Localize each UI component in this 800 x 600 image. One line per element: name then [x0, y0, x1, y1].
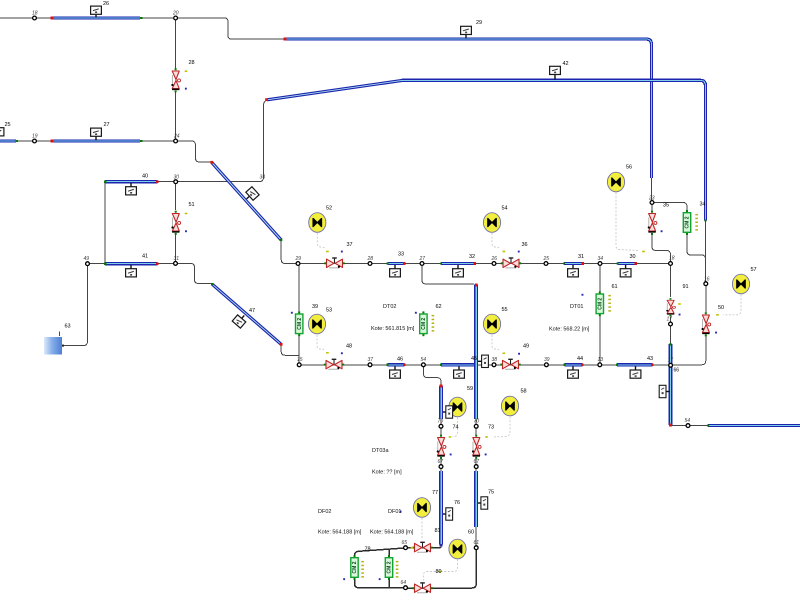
svg-text:78: 78	[365, 547, 371, 553]
svg-text:23: 23	[648, 196, 655, 202]
cm box DF01	[385, 555, 392, 580]
node 63b	[474, 465, 478, 469]
node 13	[598, 363, 602, 367]
wire valve 28 to node 24	[175, 91, 177, 140]
node 15	[297, 363, 301, 367]
svg-text:15: 15	[297, 357, 303, 363]
valve 91	[666, 298, 675, 316]
pipe 25	[0, 140, 18, 142]
svg-text:61: 61	[474, 540, 480, 546]
wire pipe 29 bottom to node 23	[651, 178, 653, 200]
svg-text:34: 34	[260, 175, 266, 181]
svg-text:28: 28	[367, 256, 374, 262]
ydots 62	[432, 315, 435, 332]
svg-text:42: 42	[563, 61, 569, 67]
cm box DF02	[351, 555, 358, 580]
svg-text:81: 81	[435, 528, 441, 534]
ydots DF01	[396, 561, 399, 578]
meter 41	[126, 265, 137, 277]
svg-text:Kote: 564.188 [m]: Kote: 564.188 [m]	[370, 530, 414, 536]
wire node 18b to valve 91	[670, 265, 672, 297]
meter 43	[630, 366, 641, 378]
svg-text:67: 67	[438, 459, 444, 465]
svg-text:60: 60	[468, 530, 474, 536]
wire right chain valve 73	[475, 419, 477, 436]
svg-text:16: 16	[704, 277, 710, 283]
svg-text:28: 28	[189, 60, 195, 66]
svg-text:26: 26	[491, 256, 498, 262]
svg-text:35: 35	[663, 203, 669, 209]
wire node 23 to valve	[651, 205, 653, 212]
svg-text:30: 30	[630, 254, 636, 260]
wire pipe 42 bottom to node 16	[705, 221, 707, 283]
ydots 61	[608, 295, 611, 312]
meter 46	[390, 366, 401, 378]
meter 76	[443, 508, 453, 520]
wire top row A left	[0, 17, 173, 19]
meter 31	[568, 265, 579, 277]
pipe 32	[440, 262, 476, 265]
dashed pump 53 to valve 48	[317, 335, 324, 350]
svg-text:DF01: DF01	[388, 509, 401, 515]
pump 55	[483, 314, 500, 334]
meter 68	[659, 385, 669, 397]
wire node 30 segment	[105, 181, 176, 183]
wire valve row DF01	[406, 547, 441, 549]
meter 35 rotated	[243, 187, 259, 203]
pipe 42	[402, 80, 707, 221]
valve 23	[648, 211, 657, 235]
svg-text:34: 34	[598, 256, 604, 262]
node 67	[439, 465, 443, 469]
svg-text:53: 53	[326, 308, 332, 314]
svg-text:55: 55	[502, 307, 508, 313]
wire row E main	[299, 364, 670, 366]
cm box 62	[420, 311, 427, 336]
svg-text:47: 47	[249, 308, 255, 314]
node 70	[439, 424, 443, 428]
svg-text:36: 36	[522, 242, 528, 248]
svg-text:Kote: 564.188 [m]: Kote: 564.188 [m]	[318, 530, 362, 536]
dashed pump 80b to valve 80	[423, 560, 457, 581]
svg-text:29: 29	[295, 256, 302, 262]
svg-text:17: 17	[667, 317, 673, 323]
valve 37	[324, 258, 344, 268]
svg-text:62: 62	[436, 304, 442, 310]
wire pipe 47 bottom to node 15	[281, 345, 299, 356]
svg-text:80: 80	[436, 569, 442, 575]
node 38	[492, 363, 496, 367]
svg-text:32: 32	[469, 254, 475, 260]
pump 57	[732, 274, 749, 294]
svg-text:38: 38	[492, 357, 498, 363]
pipe 43	[616, 363, 654, 366]
pump 58	[501, 396, 518, 416]
svg-text:44: 44	[577, 356, 583, 362]
node 27	[420, 262, 424, 266]
wire valve 91 to node 17	[670, 317, 672, 322]
node 17	[669, 322, 673, 326]
meter 30	[620, 265, 631, 277]
node 34b	[598, 262, 602, 266]
svg-text:37: 37	[368, 357, 374, 363]
wire loop top	[355, 548, 405, 588]
dashed pump 54 to valve 36	[492, 233, 499, 248]
pump 52	[309, 213, 326, 233]
svg-text:37: 37	[347, 242, 353, 248]
svg-text:39: 39	[312, 304, 318, 310]
pump 53	[308, 314, 325, 334]
svg-text:51: 51	[189, 202, 195, 208]
meter 25	[0, 128, 4, 140]
pipe 77	[440, 471, 443, 547]
svg-text:41: 41	[142, 254, 148, 260]
svg-text:73: 73	[488, 425, 494, 431]
cm box 34	[683, 210, 690, 235]
wire node 16 to valve 50	[705, 286, 707, 313]
svg-text:64: 64	[401, 580, 407, 586]
pipe 44	[563, 363, 583, 366]
svg-text:DT02: DT02	[383, 304, 396, 310]
wire valve 51 to node 31	[175, 234, 177, 262]
node 29	[296, 262, 300, 266]
svg-text:39: 39	[544, 357, 550, 363]
svg-text:26: 26	[103, 1, 109, 7]
wire node 23 to CM2 (pipe 35)	[652, 203, 687, 213]
svg-text:45: 45	[471, 356, 477, 362]
wire node 24 jog to pipe 35	[176, 141, 211, 162]
meter 71	[478, 355, 488, 367]
valve 74	[437, 435, 446, 459]
svg-text:54: 54	[685, 418, 691, 424]
blue dash marks	[185, 88, 717, 580]
dashed pump 58 to valve 73	[494, 417, 510, 437]
wire pipe 41 to node 31	[157, 263, 176, 265]
meter 45	[454, 366, 465, 378]
wire pipe 42 left tip down to node-30 row	[157, 101, 266, 182]
wire node 49 to pipe 41	[88, 263, 106, 265]
svg-text:77: 77	[432, 490, 438, 496]
wire pipe 77 bottom stub	[440, 544, 442, 548]
meter 44	[568, 366, 579, 378]
valve 28	[171, 68, 180, 92]
dashed pump 55 to valve 49	[492, 335, 499, 350]
svg-text:54: 54	[502, 206, 508, 212]
valve 49	[500, 359, 520, 369]
pipe 26	[51, 17, 143, 20]
svg-text:24: 24	[173, 134, 180, 140]
pipe 46	[386, 363, 405, 366]
svg-text:19: 19	[32, 134, 38, 140]
svg-text:52: 52	[326, 206, 332, 212]
dashed pump 77b to valve DF01	[421, 518, 423, 540]
wire vertical connecting pipes 40/41	[104, 182, 106, 264]
wire loop right vertical	[388, 549, 390, 588]
node 18b	[669, 262, 673, 266]
pipe 40	[104, 180, 159, 183]
svg-text:48: 48	[346, 344, 352, 350]
pump 59	[449, 397, 466, 417]
ydots 34	[695, 214, 698, 231]
svg-text:91: 91	[683, 284, 689, 290]
wire row C main	[284, 263, 671, 265]
svg-text:43: 43	[647, 356, 653, 362]
valve 73	[472, 435, 481, 459]
pipe short at node 54	[440, 385, 443, 419]
dashed pump 56 to valve 23	[616, 193, 638, 251]
node 61b	[474, 546, 478, 550]
pipe 59 vertical	[475, 284, 478, 419]
meter 32	[453, 265, 464, 277]
dashed pump 59 to valve 74	[453, 418, 458, 437]
wire valve row 80 to node 61	[406, 550, 476, 589]
svg-text:17: 17	[668, 358, 674, 364]
meter 47 rotated	[232, 312, 248, 328]
svg-text:63: 63	[65, 324, 71, 330]
node 23	[650, 201, 654, 205]
node 39	[545, 363, 549, 367]
valve 51	[171, 211, 180, 235]
ydots DF02	[361, 561, 364, 578]
pump 80b	[449, 539, 466, 559]
svg-text:76: 76	[454, 500, 460, 506]
meter 26	[91, 6, 102, 17]
node 54a	[422, 363, 426, 367]
pipe 27	[51, 140, 143, 143]
svg-text:18: 18	[669, 256, 675, 262]
valve DF01 row	[412, 542, 432, 552]
cm box 39	[296, 311, 303, 336]
node 37	[368, 363, 372, 367]
wire node 54 jog down to short pipe	[423, 365, 441, 386]
meter 59s	[443, 406, 453, 418]
wire CM2 down to x706	[687, 233, 706, 259]
svg-text:30: 30	[174, 174, 180, 180]
svg-text:50: 50	[718, 305, 724, 311]
svg-text:18: 18	[32, 11, 38, 17]
node 31	[174, 262, 178, 266]
node 16	[704, 282, 708, 286]
svg-text:Kote: ?? [m]: Kote: ?? [m]	[372, 470, 402, 476]
wire left chain valve 74	[440, 419, 442, 436]
svg-text:56: 56	[626, 165, 632, 171]
wire red tip row to pipe 64	[671, 425, 709, 427]
node 65	[404, 546, 408, 550]
node 18	[33, 16, 37, 20]
wire valve 50 to junction 66	[672, 336, 706, 365]
node 66	[669, 363, 673, 367]
pump 54	[483, 213, 500, 233]
node 54c	[686, 424, 690, 428]
wire vertical through CM 39	[298, 264, 300, 365]
meter 42	[550, 66, 561, 79]
svg-text:75: 75	[488, 490, 494, 496]
pipe 60	[474, 471, 478, 527]
pipe 29	[284, 38, 652, 178]
wire valve 51 drop	[175, 183, 177, 210]
wire row B left	[16, 140, 174, 142]
svg-text:27: 27	[419, 256, 426, 262]
wire valve 28 drop from node 20	[175, 19, 177, 69]
svg-text:70: 70	[438, 419, 444, 425]
node 30	[174, 180, 178, 184]
node 49	[86, 262, 90, 266]
node 25	[544, 262, 548, 266]
node 72	[474, 424, 478, 428]
svg-text:65: 65	[402, 540, 408, 546]
svg-text:20: 20	[172, 11, 179, 17]
svg-text:25: 25	[5, 122, 11, 128]
meter 27	[91, 128, 102, 140]
meter 33	[390, 265, 401, 277]
dashed pump 52 to valve 37	[317, 233, 324, 248]
pump 77b	[413, 498, 430, 518]
svg-text:34: 34	[700, 202, 706, 208]
pipe 33	[386, 262, 405, 265]
wire node 31 jog to pipe 47	[176, 263, 213, 283]
svg-text:31: 31	[578, 254, 584, 260]
valve 50	[702, 312, 711, 336]
node 64	[404, 586, 408, 590]
svg-text:61: 61	[612, 284, 618, 290]
svg-text:49: 49	[84, 256, 90, 262]
wire pipe 75 bottom to node 61	[475, 527, 477, 547]
wire node 17 to vertical pipe	[670, 326, 672, 344]
valve 80 row	[412, 583, 432, 593]
svg-text:29: 29	[476, 20, 482, 26]
svg-text:57: 57	[751, 267, 757, 273]
svg-text:59: 59	[467, 386, 473, 392]
wire pipe 35 bottom to row C	[281, 240, 296, 264]
svg-text:Kote: 561.815 [m]: Kote: 561.815 [m]	[371, 326, 415, 332]
valve 48	[324, 359, 344, 369]
node 19	[33, 139, 37, 143]
svg-text:DT01: DT01	[570, 304, 583, 310]
pipe 64 bottom right	[707, 424, 800, 426]
svg-text:67: 67	[474, 459, 480, 465]
svg-text:70: 70	[474, 419, 480, 425]
node 20	[174, 16, 178, 20]
svg-text:49: 49	[523, 344, 529, 350]
node 24	[174, 139, 178, 143]
meter 29	[461, 26, 472, 38]
yellow dash marks	[185, 70, 719, 572]
node 28	[368, 262, 372, 266]
svg-text:DT03a: DT03a	[372, 448, 389, 454]
svg-text:31: 31	[174, 256, 180, 262]
dashed pump 57 to valve 50	[723, 295, 741, 315]
svg-text:DF02: DF02	[318, 509, 331, 515]
svg-text:27: 27	[104, 122, 110, 128]
svg-text:54: 54	[421, 357, 427, 363]
wire valve 23 to node 18b	[652, 234, 671, 262]
svg-text:40: 40	[142, 174, 148, 180]
svg-text:66: 66	[674, 368, 680, 374]
pump 56	[607, 172, 624, 192]
wire node 27 drop to pipe 59	[422, 264, 474, 285]
pipe 45	[440, 364, 476, 366]
pipe 47 diagonal	[211, 283, 283, 346]
wire node 49 down to reservoir 63	[63, 264, 88, 346]
pipe 41	[104, 262, 159, 265]
svg-text:46: 46	[397, 357, 403, 363]
reservoir 63	[44, 332, 64, 355]
pipe 31	[563, 262, 584, 265]
svg-text:74: 74	[453, 425, 459, 431]
valve 36	[501, 258, 521, 268]
svg-text:33: 33	[398, 252, 404, 258]
svg-text:13: 13	[598, 357, 604, 363]
cm box 61	[596, 291, 603, 316]
svg-text:58: 58	[521, 389, 527, 395]
svg-text:Kote: 568.22 [m]: Kote: 568.22 [m]	[549, 327, 590, 333]
pipe 42 diagonal	[265, 80, 403, 101]
pipe 30	[616, 262, 637, 265]
meter 75	[478, 497, 488, 509]
area labels	[318, 304, 590, 536]
node 26	[492, 262, 496, 266]
pipe 68 vertical	[669, 343, 672, 426]
wire node 34b down through CM 61 to node 13	[599, 264, 601, 365]
wire node 20 to pipe 29 jog	[176, 18, 285, 39]
pipe 35 diagonal	[210, 161, 282, 241]
meter 40	[126, 183, 137, 195]
svg-text:25: 25	[543, 256, 550, 262]
